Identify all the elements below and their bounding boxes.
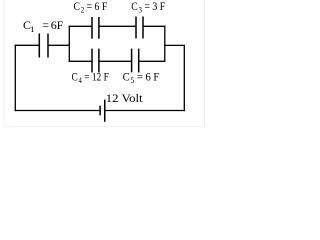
capacitor C2 plate right xyxy=(98,17,100,39)
wire: bottom outer left segment xyxy=(15,110,100,112)
svg-text:=: = xyxy=(42,18,49,32)
capacitor C5 plate right xyxy=(138,49,140,73)
wire: top branch segment A xyxy=(69,25,92,27)
wire: top branch segment B xyxy=(100,25,136,27)
faint frame left line xyxy=(3,0,6,127)
capacitor C4 plate left xyxy=(91,49,93,73)
faint frame bottom line xyxy=(4,126,205,127)
wire: bottom branch segment A xyxy=(69,60,92,62)
capacitor C2 plate left xyxy=(91,17,93,39)
faint frame right line xyxy=(204,0,205,127)
wire: left junction vertical xyxy=(68,26,70,62)
wire: right connector horizontal xyxy=(164,44,185,46)
wire: bottom branch segment B xyxy=(100,60,131,62)
svg-text:C5 = 6 F: C5 = 6 F xyxy=(123,69,160,85)
svg-text:C2 = 6 F: C2 = 6 F xyxy=(74,0,108,15)
battery B1 short plate xyxy=(99,106,101,116)
wire: right outer vertical xyxy=(183,45,185,111)
wire: C1 branch left segment xyxy=(15,44,39,46)
wire: left outer vertical xyxy=(14,45,16,112)
svg-text:F: F xyxy=(57,18,64,32)
capacitor C4 plate right xyxy=(98,49,100,73)
wire: bottom branch segment C xyxy=(139,60,165,62)
svg-text:12 Volt: 12 Volt xyxy=(106,91,144,105)
wire: bottom outer right segment xyxy=(105,110,185,112)
svg-text:C3 = 3 F: C3 = 3 F xyxy=(131,0,165,15)
capacitor C1 plate left xyxy=(38,34,40,58)
capacitor C3 plate left xyxy=(135,17,137,39)
svg-text:C4 = 12 F: C4 = 12 F xyxy=(72,69,110,85)
capacitor C3 plate right xyxy=(142,17,144,39)
battery B1 long plate xyxy=(104,100,106,122)
capacitor C1 plate right xyxy=(47,34,49,58)
capacitor C5 plate left xyxy=(131,49,133,73)
wire: C1 branch right segment xyxy=(49,44,70,46)
wire: top branch segment C xyxy=(144,25,166,27)
wire: right junction vertical xyxy=(164,26,166,62)
